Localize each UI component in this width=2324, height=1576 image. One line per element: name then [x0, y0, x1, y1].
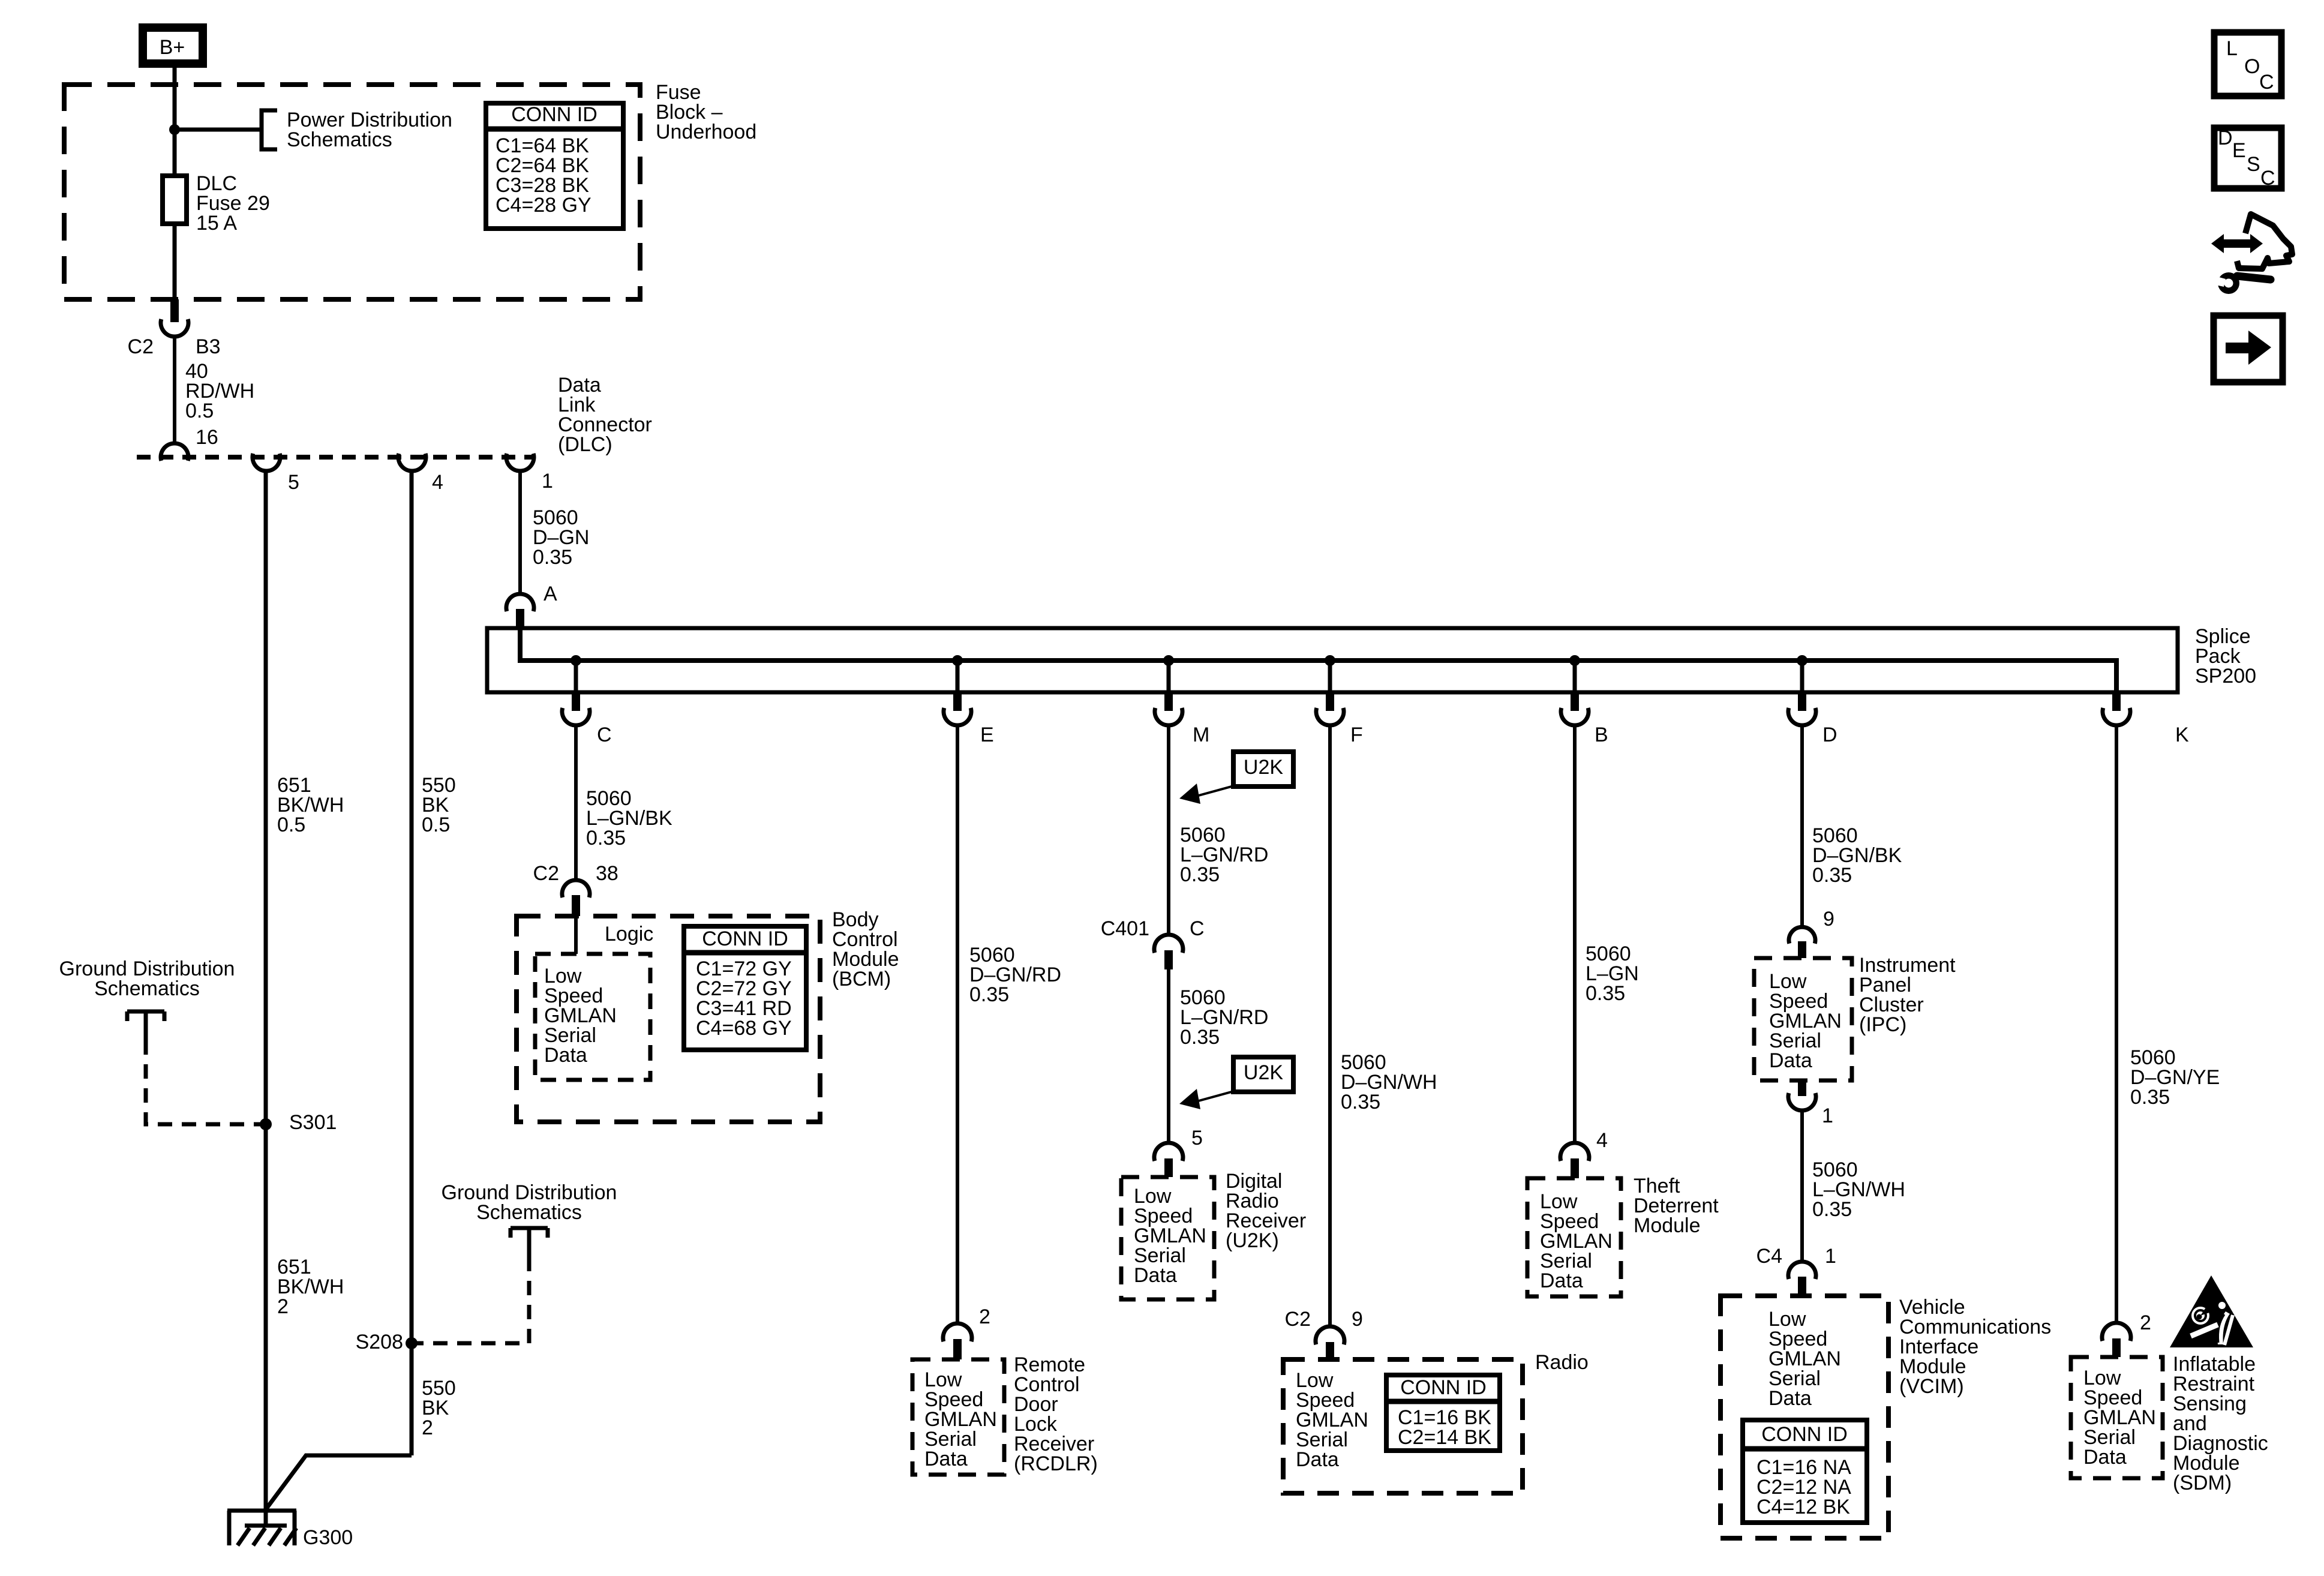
svg-text:S301: S301 — [289, 1111, 337, 1134]
splice pack SP200 box — [487, 628, 2178, 692]
node splice tap C — [571, 655, 581, 666]
svg-text:C: C — [2260, 167, 2275, 190]
svg-text:CONN ID: CONN ID — [702, 927, 788, 950]
connector DLC pin 4 — [398, 454, 426, 471]
svg-text:38: 38 — [596, 862, 618, 885]
svg-text:F: F — [1350, 724, 1363, 746]
wire 5060 D-GN 0.35 DLC pin1 to splice — [518, 471, 522, 595]
theft deterrent module dashed box — [1527, 1178, 1621, 1296]
svg-text:C2: C2 — [533, 862, 559, 885]
wire 550 BK DLC pin4 to S208 — [410, 471, 414, 1455]
wire 5060 D-GN/WH 0.35 branch F — [1328, 725, 1332, 1327]
svg-text:S208: S208 — [356, 1331, 403, 1353]
svg-text:1: 1 — [1825, 1245, 1836, 1268]
svg-text:D: D — [1822, 724, 1837, 746]
connector C2 pin B3 fuse block output — [170, 299, 179, 322]
node splice tap D — [1797, 655, 1807, 666]
battery feed B+ terminal — [143, 28, 203, 64]
svg-text:C4: C4 — [1756, 1245, 1782, 1268]
svg-text:K: K — [2175, 724, 2189, 746]
connector table CONN ID VCIM — [1743, 1420, 1867, 1523]
svg-text:C: C — [597, 724, 612, 746]
svg-text:G300: G300 — [303, 1526, 353, 1549]
wire splice drop — [1167, 661, 1171, 692]
wire 40 RD/WH 0.5 — [173, 337, 176, 443]
icon arrow box — [2214, 316, 2283, 382]
svg-text:2: 2 — [979, 1305, 990, 1328]
svg-text:4: 4 — [1596, 1129, 1608, 1152]
connector table CONN ID radio — [1386, 1375, 1500, 1451]
svg-text:5: 5 — [288, 471, 299, 494]
fuse DLC Fuse 29 15A — [163, 176, 187, 224]
connector DLC pin 1 — [506, 454, 534, 471]
svg-text:C: C — [1190, 917, 1205, 940]
icon LOC box — [2214, 32, 2281, 96]
svg-text:1: 1 — [1822, 1104, 1833, 1127]
svg-text:A: A — [544, 583, 557, 605]
icon diagnostic outline — [2237, 214, 2292, 269]
callout U2K upper — [1233, 752, 1293, 787]
connector pin 1 IPC output — [1798, 1080, 1806, 1096]
data link connector face dashed line — [137, 455, 534, 460]
svg-text:4: 4 — [432, 471, 443, 494]
wire splice drop — [1573, 661, 1577, 692]
node junction to power distribution — [169, 124, 180, 135]
svg-text:C401: C401 — [1101, 917, 1149, 940]
fuse block underhood dashed box — [64, 85, 640, 299]
node splice tap B — [1569, 655, 1580, 666]
remote control door lock receiver dashed box — [912, 1359, 1004, 1475]
wire 5060 D-GN/RD 0.35 branch E — [956, 725, 959, 1324]
vehicle communications interface module dashed box — [1721, 1296, 1888, 1538]
body control module BCM dashed box — [517, 916, 820, 1122]
digital radio receiver dashed box — [1121, 1177, 1214, 1299]
wire 5060 D-GN/YE 0.35 branch K — [2115, 725, 2118, 1323]
svg-text:S: S — [2247, 153, 2260, 176]
dashed lead to S301 — [146, 1040, 266, 1124]
connector DLC pin 16 — [161, 443, 188, 461]
wire into BCM logic — [574, 916, 578, 954]
svg-text:D: D — [2218, 127, 2233, 149]
splice S208 — [406, 1337, 418, 1349]
dashed lead to S208 — [412, 1257, 529, 1343]
node splice tap F — [1325, 655, 1335, 666]
wire splice drop — [956, 661, 960, 692]
callout U2K lower — [1233, 1057, 1293, 1092]
connector splice pack terminal E — [953, 692, 962, 711]
svg-text:O: O — [2244, 55, 2260, 78]
svg-text:Logic: Logic — [605, 923, 653, 945]
svg-text:CONN ID: CONN ID — [511, 103, 597, 126]
svg-text:B3: B3 — [196, 335, 221, 358]
wire 550 BK 2 to ground — [266, 1455, 412, 1509]
connector table CONN ID fuse block — [486, 103, 623, 229]
airbag warning triangle — [2170, 1275, 2253, 1347]
icon DESC box — [2214, 128, 2281, 188]
wire fuse to fuse block edge — [173, 224, 177, 303]
svg-text:M: M — [1193, 724, 1209, 746]
svg-text:16: 16 — [196, 426, 218, 449]
connector splice pack terminal M — [1164, 692, 1173, 711]
svg-text:L: L — [2226, 37, 2238, 60]
wire splice drop — [1800, 661, 1804, 692]
node splice tap M — [1163, 655, 1174, 666]
wire 5060 L-GN/BK 0.35 branch C — [574, 725, 578, 880]
instrument panel cluster dashed box — [1754, 958, 1852, 1080]
wire 5060 L-GN 0.35 branch B — [1573, 725, 1577, 1143]
svg-text:C1=72 GYC2=72 GYC3=41 RDC4=68: C1=72 GYC2=72 GYC3=41 RDC4=68 GY — [696, 957, 792, 1040]
icon wrench — [2218, 272, 2239, 294]
svg-text:C1=16 BKC2=14 BK: C1=16 BKC2=14 BK — [1398, 1406, 1491, 1449]
svg-text:Radio: Radio — [1535, 1351, 1589, 1374]
svg-text:5: 5 — [1191, 1127, 1203, 1149]
wire splice drop — [574, 661, 578, 692]
svg-text:CONN ID: CONN ID — [1400, 1376, 1487, 1399]
svg-text:E: E — [980, 724, 994, 746]
svg-text:U2K: U2K — [1244, 1061, 1283, 1084]
connector splice pack terminal F — [1326, 692, 1334, 711]
svg-text:C1=64 BKC2=64 BKC3=28 BKC4=28: C1=64 BKC2=64 BKC3=28 BKC4=28 GY — [496, 134, 591, 217]
svg-text:CONN ID: CONN ID — [1761, 1423, 1848, 1446]
svg-text:9: 9 — [1823, 908, 1834, 930]
wire splice drop — [1328, 661, 1332, 692]
wire 5060 L-GN/WH 0.35 — [1800, 1110, 1804, 1262]
splice S301 — [260, 1118, 272, 1130]
wire 5060 D-GN/BK 0.35 branch D — [1800, 725, 1804, 927]
radio dashed box — [1283, 1359, 1523, 1493]
off-page bracket Power Distribution — [262, 110, 277, 149]
icon diagnostic double arrow — [2211, 234, 2263, 253]
connector DLC pin 5 — [253, 454, 280, 471]
ground G300 — [227, 1511, 296, 1545]
svg-text:C2: C2 — [1285, 1308, 1311, 1331]
SDM dashed box — [2071, 1357, 2163, 1478]
wire 651 BK/WH DLC pin5 to G300 — [264, 471, 268, 1527]
wire 5060 L-GN/RD 0.35 branch M upper — [1167, 725, 1170, 935]
splice bus wire SP200 — [520, 628, 2116, 692]
connector splice pack terminal K — [2112, 692, 2121, 711]
node splice tap E — [952, 655, 963, 666]
svg-text:B+: B+ — [160, 36, 185, 59]
connector splice pack terminal B — [1571, 692, 1579, 711]
svg-text:C2: C2 — [128, 335, 154, 358]
svg-text:2: 2 — [2140, 1311, 2151, 1334]
svg-text:9: 9 — [1352, 1308, 1363, 1331]
connector splice pack terminal C — [572, 692, 580, 711]
svg-text:C: C — [2259, 71, 2274, 94]
svg-text:B: B — [1595, 724, 1608, 746]
BCM low speed GMLAN serial data dashed box — [535, 954, 650, 1080]
svg-text:1: 1 — [542, 470, 553, 493]
connector table CONN ID BCM — [684, 926, 806, 1050]
wire to power distribution bracket — [175, 128, 262, 132]
connector splice pack terminal D — [1798, 692, 1806, 711]
wire 5060 L-GN/RD 0.35 branch M lower — [1167, 969, 1170, 1143]
wire B+ to fuse — [173, 68, 177, 176]
svg-text:U2K: U2K — [1244, 756, 1283, 779]
svg-text:E: E — [2232, 139, 2246, 162]
svg-text:C1=16 NAC2=12 NAC4=12 BK: C1=16 NAC2=12 NAC4=12 BK — [1756, 1456, 1851, 1518]
